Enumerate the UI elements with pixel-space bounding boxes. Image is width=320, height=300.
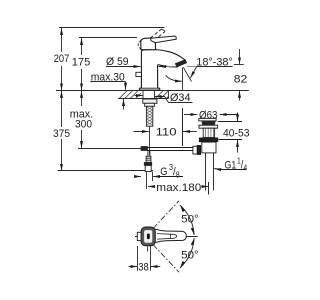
spray adjustment arc with arrowhead bbox=[166, 75, 182, 81]
dimension 38 bbox=[138, 246, 151, 271]
locking nut (dark) bbox=[199, 138, 218, 143]
dimension max.180 bbox=[148, 186, 208, 188]
svg-text:207: 207 bbox=[54, 53, 70, 65]
pop-up rod (horizontal) bbox=[141, 147, 193, 151]
label G1 1/4 with leader arrow bbox=[214, 169, 246, 170]
countertop deck cross-section with hatching bbox=[118, 91, 169, 99]
svg-text:175: 175 bbox=[72, 57, 91, 69]
flange mouth (dark) bbox=[202, 121, 216, 125]
faucet body (front view) bbox=[139, 50, 185, 91]
tick below body bbox=[147, 247, 149, 252]
flange rim bbox=[199, 125, 218, 128]
dimension 40-53 bbox=[218, 113, 242, 153]
svg-text:300: 300 bbox=[75, 119, 92, 131]
svg-text:50°: 50° bbox=[181, 213, 199, 225]
top view body ring bbox=[143, 229, 154, 245]
solid lever handle (horizontal) bbox=[151, 36, 177, 43]
faucet base escutcheon line bbox=[140, 87, 160, 89]
dashed hub ghost arc bbox=[138, 40, 141, 49]
spray angle stream line 38deg bbox=[183, 67, 191, 81]
svg-text:375: 375 bbox=[53, 128, 70, 140]
wire: extension line below drain tailpipe bbox=[208, 182, 210, 195]
dash-dot line -50deg bbox=[153, 245, 179, 273]
svg-text:40-53: 40-53 bbox=[223, 127, 250, 139]
top view lever bbox=[154, 229, 186, 243]
hole diameter arrows at deck (Ø34 hole) bbox=[135, 96, 165, 97]
dimension max.300 vertical line with arrows bbox=[81, 91, 83, 148]
dashed raised lever (alternate position) bbox=[146, 29, 165, 44]
mounting washer below deck bbox=[143, 99, 157, 103]
svg-text:38: 38 bbox=[138, 261, 149, 273]
swivel arc lower with arrowheads bbox=[180, 238, 194, 268]
tailpipe bbox=[206, 153, 214, 191]
wire: 375 bottom extension line bbox=[58, 170, 153, 172]
svg-text:G3/8: G3/8 bbox=[160, 163, 180, 180]
svg-text:110: 110 bbox=[156, 127, 177, 139]
mounting nut bbox=[145, 103, 155, 106]
wire: deck top extension line bbox=[56, 90, 249, 92]
top view left tab (rod knob) bbox=[137, 232, 141, 240]
handle hub bbox=[141, 38, 156, 50]
svg-text:max.180: max.180 bbox=[156, 182, 201, 194]
label Ø63 with arrows bbox=[184, 114, 238, 116]
threaded shank (cross-hatched) bbox=[146, 106, 152, 126]
aerator at spout tip bbox=[175, 60, 187, 67]
wire: max.300 bottom extension line bbox=[78, 148, 141, 150]
swivel arc upper with arrowheads bbox=[180, 205, 194, 235]
wire: G3/8 extension lines below connector bbox=[147, 172, 153, 189]
dimension 82 (spout height) bbox=[234, 49, 244, 101]
top view centerline bbox=[135, 236, 198, 238]
plug cap bbox=[199, 118, 216, 121]
dimension 207 vertical line with arrows bbox=[61, 28, 63, 90]
dimension 375 vertical line with arrows bbox=[61, 91, 63, 171]
pop-up rod knob (dark) bbox=[197, 145, 201, 154]
supply pipe centerline below shank bbox=[149, 126, 151, 155]
dimension 110 (faucet to drain) bbox=[133, 131, 197, 133]
svg-text:82: 82 bbox=[234, 73, 248, 85]
wire: top extension line (max lever height 207) bbox=[59, 27, 165, 29]
flexible hose with G3/8 connector bbox=[144, 151, 152, 172]
svg-text:G11/4: G11/4 bbox=[225, 156, 248, 173]
spray angle stream line 18deg (vertical) bbox=[182, 68, 184, 91]
svg-text:50°: 50° bbox=[181, 250, 199, 262]
dimension 175 vertical line with arrows bbox=[81, 38, 83, 90]
drain body bbox=[202, 142, 216, 153]
pop-up rod knob on body bbox=[136, 72, 142, 76]
wire: extension line lever top (175) bbox=[79, 37, 137, 39]
wire: extension line for 110 right end bbox=[182, 108, 184, 146]
dash-dot line +50deg bbox=[153, 201, 179, 229]
threaded neck bbox=[203, 128, 214, 137]
top view center pill bbox=[147, 234, 150, 240]
leader shaft from 18-38 label to spout (grey) bbox=[159, 66, 176, 68]
pop-up rod clevis bbox=[193, 146, 197, 154]
label G3/8 with squeeze arrows bbox=[135, 176, 184, 178]
